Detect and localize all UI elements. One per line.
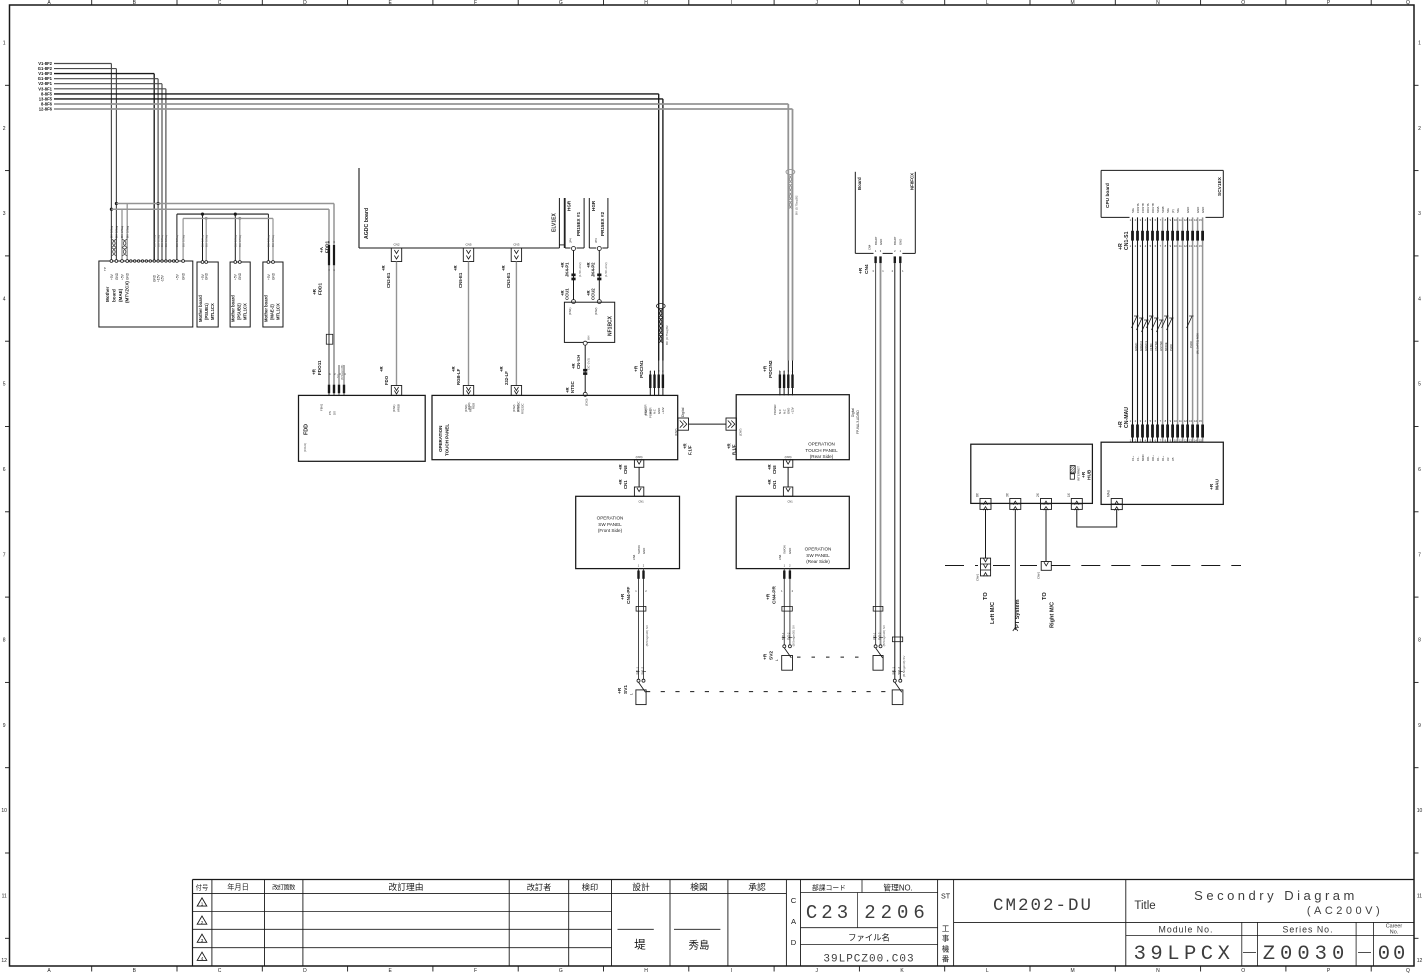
- svg-text:GND: GND: [899, 239, 903, 245]
- svg-text:JK4-P1: JK4-P1: [565, 262, 570, 277]
- svg-text:2206: 2206: [864, 902, 930, 924]
- svg-text:堤: 堤: [634, 939, 646, 952]
- svg-text:5: 5: [1418, 382, 1421, 388]
- svg-text:(CN2): (CN2): [516, 404, 520, 412]
- svg-text:V3: V3: [1166, 457, 1170, 461]
- svg-text:BU 3.5sq: BU 3.5sq: [234, 235, 238, 247]
- svg-text:Mother board: Mother board: [198, 295, 203, 322]
- svg-text:FDD1: FDD1: [318, 283, 323, 295]
- svg-text:(1.5C-2V2): (1.5C-2V2): [578, 262, 582, 277]
- svg-text:工: 工: [942, 924, 950, 933]
- svg-text:2: 2: [201, 920, 204, 925]
- svg-text:+R: +R: [379, 365, 384, 372]
- svg-text:+R: +R: [617, 687, 623, 694]
- svg-text:+R: +R: [620, 593, 626, 600]
- label TO Right M/C: [1042, 592, 1055, 628]
- svg-text:PWR: PWR: [1169, 344, 1173, 351]
- svg-text:(CN6): (CN6): [467, 402, 471, 410]
- svg-text:CN1: CN1: [638, 500, 644, 504]
- svg-text:Module No.: Module No.: [1159, 925, 1214, 935]
- svg-text:(CN1): (CN1): [392, 404, 396, 412]
- svg-text:VSYNC: VSYNC: [1154, 341, 1158, 351]
- svg-text:F.1/F: F.1/F: [688, 445, 693, 455]
- svg-text:+A: +A: [319, 246, 324, 253]
- svg-text:board: board: [112, 289, 117, 302]
- wire junctions top-left: [110, 202, 160, 211]
- svg-text:(CN1): (CN1): [568, 307, 572, 315]
- svg-text:CN-MAU: CN-MAU: [1124, 407, 1130, 428]
- svg-text:秀島: 秀島: [689, 939, 710, 952]
- svg-text:39LPCZ00.C03: 39LPCZ00.C03: [823, 954, 914, 966]
- svg-text:+R: +R: [858, 267, 864, 274]
- svg-text:D: D: [791, 938, 797, 947]
- svg-text:INTERNET: INTERNET: [1077, 466, 1081, 481]
- svg-text:1: 1: [3, 41, 6, 47]
- wire V3-8F1: [38, 86, 166, 261]
- svg-text:(FDH1): (FDH1): [303, 443, 307, 452]
- svg-text:(MAE-2): (MAE-2): [269, 304, 274, 320]
- svg-text:CN1: CN1: [623, 480, 628, 489]
- svg-text:6: 6: [1418, 467, 1421, 473]
- svg-text:N: N: [1156, 968, 1160, 973]
- svg-text:BC (0.75sq)B2: BC (0.75sq)B2: [665, 325, 669, 345]
- label PT System: [1015, 599, 1021, 628]
- connector CN7 link: [674, 418, 743, 455]
- svg-text:Mother board: Mother board: [263, 295, 268, 322]
- svg-text:+5V: +5V: [234, 273, 238, 280]
- Mother board (MAE) MTVZCX: [99, 260, 193, 327]
- svg-text:1: 1: [201, 902, 204, 907]
- svg-text:GND: GND: [642, 548, 646, 554]
- svg-text:GND: GND: [182, 272, 186, 280]
- svg-text:BU 3.5sq: BU 3.5sq: [175, 235, 179, 247]
- svg-text:+R: +R: [501, 264, 506, 271]
- svg-text:SV2-2: SV2-2: [787, 632, 791, 640]
- svg-text:V5: V5: [1171, 457, 1175, 461]
- svg-text:Series No.: Series No.: [1282, 925, 1333, 935]
- svg-text:CN4-PR: CN4-PR: [772, 586, 778, 604]
- box NF1BCX: [564, 302, 614, 342]
- label TO Left M/C: [983, 592, 996, 624]
- svg-text:GND: GND: [879, 239, 883, 245]
- title block headers: [196, 881, 766, 892]
- svg-text:OPERATION: OPERATION: [597, 516, 624, 521]
- svg-text:BV (0.75sq)B2: BV (0.75sq)B2: [795, 195, 799, 215]
- svg-text:(CN7): (CN7): [674, 428, 678, 436]
- svg-text:(P): (P): [1171, 209, 1175, 213]
- svg-text:(CH3): (CH3): [585, 398, 589, 406]
- svg-text:4: 4: [3, 296, 6, 302]
- svg-text:SINA: SINA: [1156, 206, 1160, 213]
- svg-text:+5V: +5V: [110, 273, 114, 280]
- svg-text:F: F: [474, 968, 477, 973]
- Mother board (PSUB1) MTL1CX: [197, 261, 218, 327]
- svg-text:11: 11: [1417, 894, 1422, 900]
- svg-text:MTL1CX: MTL1CX: [275, 303, 280, 320]
- svg-text:12-8F6: 12-8F6: [39, 107, 53, 112]
- svg-text:FDD: FDD: [304, 424, 310, 435]
- svg-text:No.: No.: [1390, 930, 1398, 936]
- svg-text:+R: +R: [453, 264, 458, 271]
- svg-text:(MAE): (MAE): [118, 288, 123, 302]
- wire V1-8F3: [38, 71, 154, 261]
- svg-text:11: 11: [2, 894, 7, 900]
- svg-text:C1-: C1-: [1136, 456, 1140, 461]
- svg-text:TO: TO: [983, 592, 989, 600]
- connector CN5 to RGB-LF: [451, 243, 474, 412]
- module/series numbers: [1126, 922, 1414, 966]
- box +R HUB: [971, 444, 1093, 503]
- svg-text:(MTVZCX): (MTVZCX): [125, 281, 130, 303]
- svg-text:(B.5mgm30) SV: (B.5mgm30) SV: [882, 625, 886, 646]
- svg-text:VFBC: VFBC: [1149, 343, 1153, 351]
- svg-text:C: C: [791, 896, 797, 905]
- svg-text:+R: +R: [312, 288, 317, 295]
- svg-text:CN4: CN4: [864, 264, 870, 274]
- svg-text:39LPCX: 39LPCX: [1134, 943, 1235, 966]
- svg-text:GREC: GREC: [1134, 343, 1138, 351]
- svg-text:M: M: [1071, 0, 1075, 6]
- board NF8FCX with CN4: [855, 172, 915, 274]
- svg-text:PWR: PWR: [1189, 341, 1193, 348]
- svg-text:4: 4: [1418, 296, 1421, 302]
- svg-text:SV1-1: SV1-1: [635, 666, 639, 674]
- svg-text:承認: 承認: [748, 881, 766, 892]
- svg-text:機: 機: [942, 944, 950, 953]
- svg-text:8: 8: [1418, 638, 1421, 644]
- svg-text:CN#1: CN#1: [976, 573, 980, 581]
- svg-text:(PSUB2): (PSUB2): [237, 303, 242, 320]
- svg-text:JP4: JP4: [594, 238, 598, 243]
- svg-text:PT System: PT System: [1015, 599, 1021, 628]
- svg-text:9: 9: [3, 723, 6, 729]
- switch assembly right A: [872, 256, 886, 670]
- svg-text:+R: +R: [763, 365, 769, 372]
- svg-text:DS: DS: [333, 411, 337, 415]
- connector CN8/CN1 rear: [767, 455, 793, 504]
- connector JK4-P2 / CCU2: [586, 251, 608, 316]
- wire 12-8F6: [39, 107, 793, 361]
- svg-text:改訂者: 改訂者: [527, 882, 552, 892]
- svg-text:GREC2: GREC2: [1139, 341, 1143, 351]
- svg-text:ELV1EX: ELV1EX: [552, 213, 558, 232]
- svg-text:(3C-2V2): (3C-2V2): [587, 358, 591, 370]
- svg-text:(CN2): (CN2): [594, 307, 598, 315]
- wire gray feeder A to FDD1: [116, 204, 334, 262]
- svg-text:PDCIN2: PDCIN2: [768, 360, 774, 378]
- svg-text:D1+: D1+: [1161, 455, 1165, 461]
- svg-text:CN5: CN5: [465, 243, 471, 247]
- svg-text:H: H: [644, 968, 648, 973]
- model CM202-DU: [993, 896, 1093, 916]
- svg-text:Title: Title: [1134, 900, 1155, 912]
- ELV1EX edge: [552, 198, 565, 248]
- svg-text:+R: +R: [766, 593, 772, 600]
- svg-text:JP4: JP4: [568, 238, 572, 243]
- svg-text:CN4: CN4: [778, 554, 782, 560]
- svg-text:SWON: SWON: [783, 545, 787, 554]
- svg-text:G: G: [559, 968, 563, 973]
- svg-text:O: O: [1241, 0, 1245, 6]
- wire 13-8F5: [39, 96, 663, 360]
- svg-text:V.H: V.H: [587, 336, 591, 340]
- svg-text:12: 12: [1417, 958, 1423, 964]
- svg-text:—: —: [1358, 944, 1371, 959]
- wire gray feeder B to FDD1: [111, 209, 329, 261]
- svg-text:C: C: [218, 0, 222, 6]
- svg-text:3: 3: [201, 938, 204, 943]
- svg-text:G: G: [559, 0, 563, 6]
- svg-text:検印: 検印: [582, 882, 598, 892]
- svg-text:管理NO.: 管理NO.: [883, 882, 912, 892]
- svg-text:(8L.2xP51) MSK: (8L.2xP51) MSK: [1195, 333, 1199, 354]
- svg-text:DOUTB: DOUTB: [1151, 203, 1155, 213]
- svg-text:B/GRT: B/GRT: [874, 236, 878, 245]
- svg-text:改訂箇数: 改訂箇数: [272, 883, 296, 891]
- svg-text:VRGB: VRGB: [397, 404, 401, 412]
- svg-text:BU 3.5sq: BU 3.5sq: [204, 235, 208, 247]
- svg-text:SV2-2: SV2-2: [877, 632, 881, 640]
- svg-text:L: L: [775, 659, 779, 661]
- box +R MAU: [1101, 442, 1223, 504]
- svg-text:CN-V.H: CN-V.H: [576, 355, 581, 369]
- twisted pair to PDCIN1: [656, 303, 669, 345]
- Mother board (MAE-2) MTL1CX: [263, 261, 283, 327]
- svg-text:C23: C23: [806, 902, 852, 924]
- svg-text:BU 3.5sq: BU 3.5sq: [181, 235, 185, 247]
- svg-text:RS232C: RS232C: [521, 403, 525, 414]
- svg-text:GND: GND: [205, 272, 209, 280]
- svg-text:BV 3.5sq: BV 3.5sq: [115, 225, 119, 238]
- svg-text:GND: GND: [1186, 207, 1190, 213]
- svg-text:-15V: -15V: [160, 274, 164, 282]
- svg-text:DO+: DO+: [1151, 455, 1155, 461]
- wire G1-8F2: [38, 66, 117, 261]
- svg-text:I: I: [731, 968, 732, 973]
- svg-text:+5V: +5V: [267, 273, 271, 280]
- svg-text:JK4-P2: JK4-P2: [591, 262, 596, 277]
- svg-text:PR15EX #1: PR15EX #1: [576, 212, 581, 236]
- svg-text:TO: TO: [1042, 592, 1048, 600]
- svg-text:CN#1: CN#1: [1037, 571, 1041, 579]
- svg-text:+R: +R: [381, 264, 386, 271]
- svg-text:FBH1: FBH1: [320, 403, 324, 411]
- svg-text:8: 8: [3, 638, 6, 644]
- svg-text:GREC3: GREC3: [1144, 341, 1148, 351]
- svg-text:AGDC board: AGDC board: [364, 208, 370, 239]
- cable size labels: [110, 225, 276, 247]
- svg-text:(CN1): (CN1): [644, 408, 648, 416]
- wire +5V distribution rail: [177, 213, 269, 262]
- svg-text:HGR: HGR: [567, 200, 572, 211]
- svg-text:SV1-2: SV1-2: [897, 666, 901, 674]
- dashed line SV1 row: [646, 691, 887, 693]
- svg-text:FDO11: FDO11: [317, 360, 322, 375]
- connector PDCIN2: [763, 360, 795, 415]
- svg-text:6: 6: [3, 467, 6, 473]
- svg-text:O: O: [1241, 968, 1245, 973]
- svg-text:POWER: POWER: [649, 407, 653, 418]
- svg-text:CCU1: CCU1: [565, 288, 570, 300]
- svg-text:(B.5mgm30) SV: (B.5mgm30) SV: [902, 656, 906, 677]
- svg-text:MOD: MOD: [1141, 454, 1145, 461]
- svg-text:RGB-LF: RGB-LF: [456, 368, 461, 385]
- connector drop to Right W/C: [1037, 509, 1052, 579]
- management number block: [801, 880, 938, 966]
- svg-text:L: L: [986, 0, 989, 6]
- svg-text:(CN7): (CN7): [739, 428, 743, 436]
- svg-text:BU 3.5sq: BU 3.5sq: [267, 235, 271, 247]
- box OPERATION SW PANEL rear: [736, 496, 849, 568]
- dashed line SV2 row: [797, 656, 866, 658]
- twisted pair symbol left: [111, 239, 127, 256]
- svg-text:R.1/F: R.1/F: [732, 444, 737, 455]
- svg-text:(1.5C-2V2): (1.5C-2V2): [604, 262, 608, 277]
- designer names: [618, 929, 721, 951]
- svg-text:GND: GND: [115, 272, 119, 280]
- svg-text:ST: ST: [941, 892, 951, 901]
- wire G1-8F1: [38, 76, 158, 261]
- svg-text:C1+: C1+: [1131, 455, 1135, 461]
- svg-text:HUB: HUB: [1087, 469, 1093, 480]
- svg-text:(Front Side): (Front Side): [598, 528, 623, 533]
- svg-text:D: D: [303, 0, 307, 6]
- svg-text:(B.5mgm30) SV: (B.5mgm30) SV: [645, 625, 649, 646]
- svg-text:NF8FCX: NF8FCX: [910, 173, 915, 190]
- svg-text:3: 3: [3, 211, 6, 217]
- svg-text:GND: GND: [788, 548, 792, 554]
- svg-text:GND: GND: [1196, 207, 1200, 213]
- svg-text:D1-: D1-: [1156, 456, 1160, 461]
- svg-text:OPERATION: OPERATION: [805, 547, 832, 552]
- svg-text:10: 10: [1, 808, 7, 814]
- ST / kanji column: [941, 892, 951, 964]
- svg-text:+R: +R: [1209, 483, 1215, 490]
- connector FDD1 / FDO11 column: [312, 240, 347, 395]
- svg-text:RGB: RGB: [472, 403, 476, 409]
- svg-text:(Rear Side): (Rear Side): [810, 454, 834, 459]
- svg-text:PR15EX #2: PR15EX #2: [600, 212, 605, 236]
- svg-text:BU 3.5sq: BU 3.5sq: [271, 235, 275, 247]
- svg-text:OPERATION: OPERATION: [808, 442, 835, 447]
- wire 8-8F6: [41, 102, 788, 361]
- svg-text:9: 9: [1418, 723, 1421, 729]
- svg-text:HSYNC: HSYNC: [1159, 341, 1163, 351]
- box CPU board SCV1EX: [1101, 170, 1223, 217]
- switch SV2 assembly: [763, 545, 796, 670]
- svg-text:+5V: +5V: [175, 273, 179, 280]
- svg-text:SV2: SV2: [768, 651, 774, 660]
- connector CN8/CN1 front: [618, 455, 644, 504]
- svg-text:POWER: POWER: [773, 404, 777, 415]
- box FDD: [299, 395, 426, 461]
- svg-text:OPERATION: OPERATION: [438, 426, 443, 452]
- AGDC board outline: [359, 168, 559, 248]
- svg-text:CN8: CN8: [772, 465, 777, 474]
- svg-text:3: 3: [1418, 211, 1421, 217]
- svg-text:PDCIN1: PDCIN1: [639, 360, 645, 378]
- svg-text:事: 事: [942, 934, 950, 943]
- svg-text:+R: +R: [763, 653, 769, 660]
- svg-text:MTL1CX: MTL1CX: [210, 303, 215, 320]
- svg-text:付号: 付号: [196, 882, 209, 891]
- svg-text:GND: GND: [1201, 207, 1205, 213]
- svg-text:CPU board: CPU board: [1105, 183, 1111, 208]
- connector CN3 to 232-LF: [499, 243, 522, 412]
- svg-text:SV2-1: SV2-1: [781, 632, 785, 640]
- svg-text:SW PANEL: SW PANEL: [806, 553, 830, 558]
- svg-text:H: H: [644, 0, 648, 6]
- svg-text:CN3-E1: CN3-E1: [506, 272, 511, 288]
- svg-text:—: —: [1243, 944, 1256, 959]
- svg-text:+R: +R: [499, 365, 504, 372]
- svg-text:(CN6): (CN6): [636, 455, 643, 459]
- svg-text:年月日: 年月日: [227, 882, 249, 891]
- svg-text:Secondry Diagram: Secondry Diagram: [1194, 888, 1358, 903]
- svg-text:(AC200V): (AC200V): [1307, 905, 1383, 917]
- connector 3X: [1006, 492, 1021, 510]
- connector 8X: [976, 492, 991, 510]
- svg-text:SV1: SV1: [623, 685, 629, 694]
- svg-text:7: 7: [1418, 552, 1421, 558]
- svg-text:(PSUB1): (PSUB1): [204, 303, 209, 320]
- box OPERATION SW PANEL front: [576, 496, 680, 568]
- svg-text:(CN6): (CN6): [785, 455, 792, 459]
- connector drop to Left W/C: [976, 509, 991, 581]
- svg-text:+R: +R: [634, 365, 640, 372]
- svg-text:部課コード: 部課コード: [812, 883, 846, 892]
- box OPERATION TOUCH PANEL rear: [736, 395, 849, 460]
- svg-text:DOUTA: DOUTA: [1146, 203, 1150, 213]
- svg-text:I: I: [731, 0, 732, 6]
- svg-text:CN4-PF: CN4-PF: [626, 587, 632, 604]
- connector 1X: [1067, 492, 1082, 510]
- svg-text:改訂理由: 改訂理由: [388, 881, 423, 892]
- svg-text:SV2-1: SV2-1: [872, 632, 876, 640]
- svg-text:CN2: CN2: [393, 243, 399, 247]
- svg-text:BU 3.5sq: BU 3.5sq: [238, 235, 242, 247]
- svg-text:GND: GND: [238, 272, 242, 280]
- svg-text:C: C: [218, 968, 222, 973]
- wire GND distribution rail: [183, 217, 273, 261]
- svg-text:SIG: SIG: [1176, 208, 1180, 213]
- svg-text:Q: Q: [1406, 968, 1410, 973]
- label rear panel part no: [851, 408, 860, 434]
- wire V1-8F2: [38, 61, 111, 261]
- board HGR PR15EX #2: [589, 198, 608, 251]
- svg-text:番: 番: [942, 955, 950, 964]
- connector CN-MAU: [1118, 407, 1204, 461]
- svg-text:GND: GND: [126, 272, 130, 280]
- svg-text:+R: +R: [312, 368, 317, 375]
- svg-text:FDO: FDO: [384, 375, 389, 385]
- svg-text:Z0030: Z0030: [1263, 943, 1350, 966]
- svg-text:232-LF: 232-LF: [504, 371, 509, 385]
- connector CN1-S1: [1118, 203, 1205, 250]
- svg-text:SCV1EX: SCV1EX: [1217, 176, 1223, 196]
- svg-text:CONTA: CONTA: [1136, 203, 1140, 213]
- svg-text:5: 5: [3, 382, 6, 388]
- svg-text:+5V: +5V: [120, 273, 124, 280]
- svg-text:SWON: SWON: [637, 545, 641, 554]
- svg-text:BV 3.5sq: BV 3.5sq: [110, 225, 114, 238]
- svg-text:CN1-S1: CN1-S1: [1124, 231, 1130, 250]
- svg-text:SW PANEL: SW PANEL: [598, 522, 622, 527]
- svg-text:Digital: Digital: [851, 408, 855, 417]
- svg-text:10: 10: [1417, 808, 1423, 814]
- svg-text:MODE: MODE: [1164, 342, 1168, 351]
- revision triangles: [197, 898, 207, 961]
